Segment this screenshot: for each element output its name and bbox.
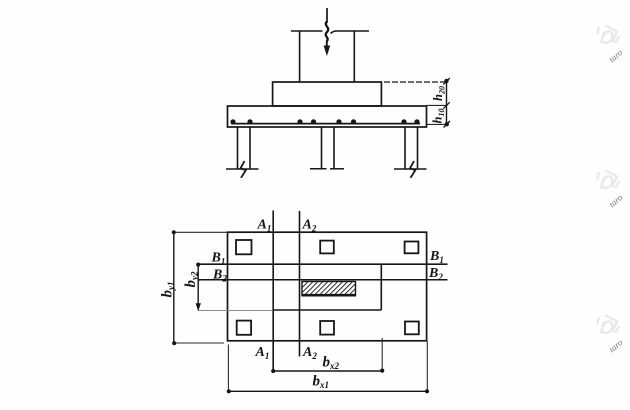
bx1 dimension line — [228, 390, 427, 392]
bx2 dimension line — [273, 370, 382, 372]
svg-text:by2: by2 — [183, 271, 200, 287]
pile square bottom-right — [405, 322, 419, 335]
extension line at slab top for h dimension — [427, 104, 447, 106]
pile 2 left edge — [321, 127, 323, 169]
rebar line in slab — [231, 123, 420, 125]
pile 3 left edge — [404, 127, 406, 169]
column cross-section (hatched) — [302, 282, 356, 296]
wire: centerline lower segment — [326, 41, 328, 48]
by1 end dot top — [172, 230, 176, 234]
pile square top-left — [236, 240, 252, 254]
pile 2 break line right part — [330, 168, 344, 170]
column right side — [353, 31, 355, 82]
lower slab of cap (section) — [228, 106, 427, 127]
by1 dimension line — [173, 232, 175, 343]
bx1 end dot left — [227, 389, 231, 393]
wire: column load centerline upper segment — [326, 8, 328, 23]
bx1 dimension: left extension line — [227, 345, 229, 392]
rebar dot 8 — [414, 119, 419, 124]
rebar dot 4 — [311, 119, 316, 124]
svg-text:bx1: bx1 — [313, 374, 330, 391]
upper step right edge (plan) — [380, 264, 382, 310]
svg-text:h20: h20 — [431, 86, 447, 101]
pile 2 break line left part — [310, 168, 327, 170]
rebar dot 6 — [351, 119, 356, 124]
svg-text:h10: h10 — [431, 109, 447, 124]
svg-text:A1: A1 — [257, 218, 272, 234]
bx2 end dot right — [380, 369, 384, 373]
pile square bottom-middle — [320, 321, 334, 335]
pile 1 break zigzag — [241, 161, 246, 178]
wire: top boundary line left of break — [291, 30, 323, 32]
h dimension end dot bottom — [445, 122, 449, 126]
cap outline (plan) — [228, 232, 427, 341]
rebar dot 3 — [297, 119, 302, 124]
svg-text:A2: A2 — [302, 345, 317, 361]
pile square bottom-left — [237, 321, 251, 335]
h dimension tick bottom — [444, 121, 451, 128]
rebar dot 5 — [336, 119, 341, 124]
svg-text:B1: B1 — [429, 249, 444, 265]
by2 end dot top — [196, 263, 200, 267]
h dimension tick top — [443, 78, 450, 85]
watermark 1 (faint) — [589, 19, 630, 64]
rebar dot 7 — [401, 119, 406, 124]
section line B1 — [198, 263, 447, 265]
upper step bottom edge (plan) — [273, 309, 382, 311]
upper step of cap (section) — [273, 82, 382, 106]
svg-text:B1: B1 — [211, 251, 226, 267]
column left side — [299, 31, 301, 82]
pile 2 right edge — [333, 127, 335, 169]
pile 1 right edge — [249, 127, 251, 169]
rebar dot 1 — [230, 119, 235, 124]
bx2 end dot left — [271, 369, 275, 373]
svg-text:A1: A1 — [255, 345, 270, 361]
column hatched rect thick bottom edge — [302, 294, 357, 297]
by1 dimension: bottom extension line — [174, 342, 224, 344]
svg-text:by1: by1 — [160, 282, 177, 298]
bx2 dimension: right extension line — [381, 338, 383, 371]
svg-text:taro: taro — [607, 47, 625, 64]
by2 arrow bottom — [196, 303, 201, 311]
break symbol on centerline — [326, 22, 329, 42]
bx1 end dot right — [425, 389, 429, 393]
h dimension line — [446, 81, 448, 124]
pile square top-middle — [320, 241, 334, 254]
by1 dimension: top extension line — [174, 231, 228, 233]
section line A2 — [299, 211, 301, 357]
pile 3 break zigzag — [410, 161, 415, 178]
section line B2 — [198, 279, 447, 281]
rebar dot 2 — [247, 119, 252, 124]
pile 3 right edge — [417, 127, 419, 169]
h dimension end dot top — [444, 79, 448, 83]
section line A1 — [272, 211, 274, 372]
wire: top boundary line right of break — [331, 31, 370, 34]
svg-text:bx2: bx2 — [323, 355, 340, 372]
h dimension tick middle — [443, 102, 450, 109]
pile 1 break line — [226, 168, 259, 170]
svg-text:B2: B2 — [212, 268, 227, 284]
pile 1 left edge — [237, 127, 239, 169]
bx1 dimension: right extension line — [426, 341, 428, 391]
svg-text:taro: taro — [607, 192, 625, 209]
extension line from step top to h dimension — [384, 81, 447, 83]
by1 end dot bottom — [172, 341, 176, 345]
load arrow head — [324, 46, 331, 57]
pile 3 break line — [394, 168, 427, 170]
svg-text:B2: B2 — [428, 266, 443, 282]
svg-text:A2: A2 — [302, 218, 317, 234]
svg-text:taro: taro — [607, 337, 625, 354]
by2 dimension line — [197, 264, 199, 309]
watermark 2 (faint) — [589, 164, 630, 209]
extension line at rebar level for h dimension — [427, 123, 448, 125]
pile square top-right — [405, 242, 419, 254]
watermark 3 (faint) — [589, 309, 630, 354]
extension of step bottom edge toward by2 dimension — [198, 310, 272, 312]
